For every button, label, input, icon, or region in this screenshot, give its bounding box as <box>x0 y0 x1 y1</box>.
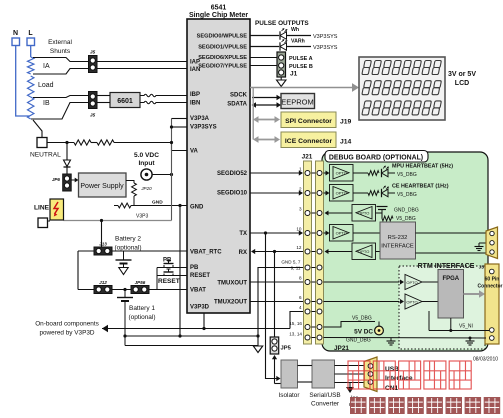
wire battery feed drop <box>101 221 103 252</box>
wire neutral blue loop <box>16 46 30 117</box>
wire V3P3SYS <box>170 125 187 128</box>
svg-text:SDCK: SDCK <box>230 93 248 99</box>
svg-text:SEGDIO52: SEGDIO52 <box>217 171 248 177</box>
svg-text:3V or 5V: 3V or 5V <box>448 71 476 78</box>
LED CE heartbeat <box>382 186 389 198</box>
wire IA tap top <box>33 58 88 62</box>
wire RS-232 to opto U9 <box>376 251 381 253</box>
svg-text:GND: GND <box>190 205 204 211</box>
RX branch to JP5 <box>273 250 276 337</box>
ICE Connector J14 <box>281 132 352 148</box>
svg-text:60 Pin: 60 Pin <box>485 277 500 283</box>
svg-text:2: 2 <box>299 187 302 192</box>
svg-text:SEGDIO7/YPULSE: SEGDIO7/YPULSE <box>198 64 247 70</box>
pushbutton RESET <box>164 269 174 276</box>
opto U7 <box>352 205 376 222</box>
svg-text:RESET: RESET <box>190 273 210 279</box>
svg-text:9, 11: 9, 11 <box>291 266 301 271</box>
V3P3D wire with left arrow <box>102 325 290 332</box>
earth ground debug right <box>466 337 475 346</box>
wire to diode <box>66 143 68 161</box>
DB9 connector J4 <box>486 227 498 259</box>
svg-text:Isolator: Isolator <box>279 392 301 399</box>
svg-text:powered by V3P3D: powered by V3P3D <box>39 330 94 337</box>
wire PS to GND resistor <box>126 181 134 184</box>
connector JP5 <box>270 337 291 354</box>
svg-text:VBAT: VBAT <box>190 288 206 294</box>
wire to V5_DBG <box>389 172 417 178</box>
wire J21 pin6 to RTM opto <box>324 299 405 304</box>
svg-text:OPTO: OPTO <box>358 249 369 254</box>
diode D1 <box>64 160 71 167</box>
opto U5 <box>330 165 354 182</box>
open arrow battery 2 gnd <box>119 268 128 275</box>
svg-text:V5_DBG: V5_DBG <box>396 216 416 222</box>
svg-text:6: 6 <box>299 295 302 300</box>
svg-text:15, 16: 15, 16 <box>289 321 302 326</box>
svg-text:12: 12 <box>296 245 302 250</box>
resistor R6 <box>97 140 114 145</box>
svg-text:L: L <box>28 30 33 37</box>
open arrow below J1 <box>277 77 287 87</box>
svg-text:USB: USB <box>385 366 399 373</box>
svg-text:External: External <box>48 39 72 46</box>
svg-text:J1: J1 <box>290 71 298 78</box>
svg-text:TMUX2OUT: TMUX2OUT <box>214 300 247 306</box>
V3P3D riser to JP21 pin 4 <box>290 312 304 329</box>
svg-text:SEGDIO0/WPULSE: SEGDIO0/WPULSE <box>197 34 248 40</box>
wire to V5_DBG <box>389 192 417 198</box>
junction neutral-diode <box>65 141 68 144</box>
svg-text:J12: J12 <box>99 280 107 285</box>
wire LED Wh to V3P3SYS <box>287 34 338 40</box>
opto U6 <box>330 185 354 202</box>
wire WPULSE <box>250 35 279 37</box>
ICE double arrow (gray) <box>253 136 280 143</box>
svg-text:08/03/2010: 08/03/2010 <box>473 357 498 363</box>
svg-text:J5: J5 <box>90 50 96 56</box>
wire SEGDIO10 to J21 pin2 <box>250 190 303 195</box>
svg-text:IA: IA <box>43 63 50 70</box>
wire opto to FPGA row 8 <box>422 281 438 283</box>
svg-text:JP6: JP6 <box>52 177 61 182</box>
EEPROM <box>281 94 315 109</box>
svg-text:V3P3D: V3P3D <box>190 305 210 311</box>
wire J5 to 6601 top <box>97 95 110 97</box>
svg-text:V3P3SYS: V3P3SYS <box>313 45 338 51</box>
label Battery 1 (optional) <box>128 305 155 321</box>
wire jack to V3P3A rail <box>152 173 173 176</box>
svg-text:1: 1 <box>299 167 302 172</box>
connector JP6 <box>52 174 71 191</box>
wire J21 pin2 to opto U6 <box>324 191 330 196</box>
junction VA divider <box>170 141 173 144</box>
svg-text:SDATA: SDATA <box>227 102 247 108</box>
svg-text:NEUTRAL: NEUTRAL <box>30 152 61 159</box>
svg-text:V3P3A: V3P3A <box>190 116 210 122</box>
svg-text:RESET: RESET <box>158 278 180 285</box>
FPGA <box>438 270 464 319</box>
wire YPULSE <box>250 65 278 67</box>
battery 1 symbol <box>117 290 133 302</box>
wire IBN with isolation squiggle <box>140 101 187 104</box>
wire IAN <box>97 68 187 70</box>
resistor R10 <box>353 171 379 176</box>
opto U7 output to J21 pin3 <box>325 211 353 216</box>
battery return wire <box>125 345 258 347</box>
wire V3P3A <box>172 118 188 120</box>
pushbutton PB <box>163 258 174 268</box>
svg-text:Serial/USB: Serial/USB <box>309 392 340 399</box>
svg-text:6541: 6541 <box>211 5 227 12</box>
terminal LINE <box>38 218 50 228</box>
gray arrow FPGA to 60 pin <box>464 290 486 297</box>
svg-text:CE HEARTBEAT (1Hz): CE HEARTBEAT (1Hz) <box>392 184 449 190</box>
svg-text:GND_DBG: GND_DBG <box>394 208 419 214</box>
wire SEGDIO52 to J21 pin1 <box>250 170 303 175</box>
wire TMUXOUT to J21 pin8 <box>250 281 303 283</box>
svg-text:V5_DBG: V5_DBG <box>352 316 372 322</box>
svg-text:OPTO: OPTO <box>358 210 369 215</box>
resistor to V5_DBG <box>382 213 416 222</box>
LED Wh <box>280 27 299 40</box>
svg-text:Single Chip Meter: Single Chip Meter <box>189 12 248 19</box>
svg-text:GND_DBG: GND_DBG <box>346 338 371 344</box>
svg-text:Input: Input <box>138 160 155 167</box>
TX branch to isolator <box>264 231 281 381</box>
connector JP56 <box>131 280 149 294</box>
svg-text:LCD: LCD <box>455 80 469 87</box>
label 60 Pin Connector <box>478 277 503 290</box>
debug board (optional) <box>322 152 488 351</box>
battery 2 symbol <box>116 251 132 268</box>
isolator U3 <box>279 360 301 399</box>
left battery rail <box>77 251 79 290</box>
wire IB tap top <box>33 96 88 98</box>
wire to LCD (gray) <box>250 83 359 92</box>
svg-text:TMUXOUT: TMUXOUT <box>217 281 247 287</box>
60 pin connector <box>485 264 499 344</box>
wire IAP <box>97 61 187 63</box>
wire diode to JP6 <box>66 167 68 174</box>
wire J21 pin10 to opto U8 <box>324 231 330 236</box>
svg-text:RX: RX <box>239 250 247 256</box>
svg-text:LINE: LINE <box>34 205 50 212</box>
junction battery gnd <box>123 334 126 337</box>
svg-text:J19: J19 <box>340 119 352 126</box>
LED MPU heartbeat <box>382 166 389 178</box>
svg-text:DEBUG BOARD (OPTIONAL): DEBUG BOARD (OPTIONAL) <box>329 155 423 162</box>
svg-text:PULSE B: PULSE B <box>289 64 313 70</box>
svg-text:GND: GND <box>152 200 163 206</box>
junction battery rail top <box>100 249 103 252</box>
connector J21 strip B <box>316 161 324 344</box>
svg-text:JP20: JP20 <box>140 186 152 191</box>
svg-text:IB: IB <box>43 100 50 107</box>
svg-text:J5: J5 <box>90 113 96 119</box>
wire J21 pin1 to opto U5 <box>324 171 330 176</box>
earth ground debug left <box>387 338 396 345</box>
isolated sensor 6601 <box>110 93 140 108</box>
power supply PS1 <box>79 173 127 197</box>
svg-text:V5_NI: V5_NI <box>459 324 473 330</box>
wire IA tap bottom <box>33 69 88 75</box>
svg-text:N: N <box>13 30 18 37</box>
arrow JP6 to power supply <box>71 178 78 183</box>
wire VBAT row <box>78 289 187 291</box>
svg-text:VA: VA <box>190 149 199 155</box>
svg-text:J14: J14 <box>340 139 352 146</box>
svg-text:OPTO: OPTO <box>406 280 417 285</box>
capacitor to GND_DBG <box>376 207 419 214</box>
pushbutton common rail <box>156 268 158 290</box>
svg-text:INTERFACE: INTERFACE <box>381 244 414 250</box>
svg-text:MPU HEARTBEAT (5Hz): MPU HEARTBEAT (5Hz) <box>392 164 453 170</box>
terminal L <box>27 30 35 46</box>
earth ground DB9 <box>475 243 487 251</box>
svg-text:V3P3SYS: V3P3SYS <box>313 34 338 40</box>
debug board title <box>325 151 428 163</box>
wires isolator to converter <box>298 366 313 383</box>
svg-text:Converter: Converter <box>311 401 340 408</box>
resistor on GND wire <box>114 205 118 207</box>
svg-text:VBAT_RTC: VBAT_RTC <box>190 250 222 256</box>
svg-text:13, 14: 13, 14 <box>289 332 302 337</box>
terminal N <box>12 30 20 46</box>
svg-text:OPTO: OPTO <box>336 170 347 175</box>
svg-text:RS-232: RS-232 <box>388 235 408 241</box>
wire opto U8 to RS-232 <box>353 232 380 234</box>
svg-text:8: 8 <box>299 276 302 281</box>
wire FPGA V5_NI <box>429 311 489 332</box>
svg-text:IBP: IBP <box>190 92 200 98</box>
wire GND drop to battery GND rail <box>179 206 181 337</box>
wire RS-232 to DB9 bottom <box>416 252 487 254</box>
svg-text:V3P3: V3P3 <box>136 214 148 220</box>
RTM interface sub-board <box>399 266 485 349</box>
wire RS-232 to DB9 top <box>416 232 487 234</box>
wire GND to chip <box>131 200 187 208</box>
svg-text:V3P3SYS: V3P3SYS <box>190 125 217 131</box>
LED VARh <box>280 39 305 51</box>
watermark small text (dark red) <box>350 397 500 414</box>
svg-text:FPGA: FPGA <box>442 276 459 282</box>
labels USB Interface CN1 <box>385 366 413 392</box>
wire XPULSE <box>250 57 278 59</box>
svg-text:JP21: JP21 <box>334 345 349 352</box>
resistor R11 <box>353 191 379 196</box>
connector J5 (IA) <box>89 50 98 73</box>
opto U8 <box>330 225 354 242</box>
wire TMUX2OUT to J21 pin6 <box>250 301 303 303</box>
RTM opto U11 <box>405 294 422 309</box>
wire line blue <box>30 46 32 58</box>
wire J5 to 6601 bottom <box>97 102 110 104</box>
wire RESET row <box>157 275 187 277</box>
svg-text:OPTO: OPTO <box>406 300 417 305</box>
serial/USB converter U4 <box>309 360 340 408</box>
junction V3P3 to battery feed <box>100 219 103 222</box>
svg-text:SEGDIO6/XPULSE: SEGDIO6/XPULSE <box>198 55 247 61</box>
wire shunt to neutral terminal <box>33 120 42 138</box>
svg-text:SEGDIO1/VPULSE: SEGDIO1/VPULSE <box>198 45 247 51</box>
label 3V or 5V LCD <box>448 71 476 87</box>
wire IB tap bottom <box>31 103 88 120</box>
V3P3 wire (gray) <box>64 214 172 221</box>
5.0 VDC input label <box>134 152 159 167</box>
wire TX to J21 pin10 <box>250 230 303 235</box>
barrel jack JP20 <box>140 169 152 191</box>
wire opto to FPGA row 6 <box>422 301 438 303</box>
wires converter to CN1 <box>335 366 365 383</box>
svg-text:V5_DBG: V5_DBG <box>397 192 417 198</box>
svg-text:Battery 2: Battery 2 <box>115 236 141 243</box>
svg-text:SPI Connector: SPI Connector <box>285 118 332 125</box>
battery 1 down wire <box>124 301 126 346</box>
svg-text:Connector: Connector <box>478 284 503 290</box>
SPI double arrow (gray) <box>253 116 280 123</box>
wire LED VARh to V3P3SYS <box>287 45 338 51</box>
connector J13 <box>94 242 112 256</box>
USB connector CN1 <box>364 357 377 392</box>
label External Shunts <box>48 39 72 55</box>
svg-text:EEPROM: EEPROM <box>281 98 314 107</box>
svg-text:J21: J21 <box>302 154 313 161</box>
shunt resistor Load <box>28 76 34 97</box>
svg-text:TX: TX <box>239 231 247 237</box>
opto U9 <box>352 243 376 260</box>
single chip meter U1 6541 <box>187 5 250 314</box>
wire IBP with isolation squiggle <box>140 94 187 97</box>
svg-text:3: 3 <box>299 207 302 212</box>
J21 pin circles <box>305 171 322 341</box>
svg-text:V5_DBG: V5_DBG <box>397 172 417 178</box>
svg-text:PULSE A: PULSE A <box>289 56 313 62</box>
shunt resistor IA <box>28 57 34 74</box>
SPI Connector J19 <box>281 112 352 128</box>
watermark big text (red outline) <box>348 361 471 389</box>
svg-text:Power Supply: Power Supply <box>80 183 124 190</box>
svg-text:RTM INTERFACE: RTM INTERFACE <box>418 263 475 270</box>
wire RX from J21 pin12 <box>251 249 303 254</box>
RTM opto U10 <box>405 275 422 290</box>
svg-text:Battery 1: Battery 1 <box>129 305 155 312</box>
svg-text:(optional): (optional) <box>128 314 155 321</box>
svg-text:OPTO: OPTO <box>336 190 347 195</box>
5V DC source <box>354 322 383 336</box>
arrow into JP5 from isolator <box>272 355 281 384</box>
svg-text:Shunts: Shunts <box>50 48 71 55</box>
iso-gnd arrow <box>346 383 361 409</box>
V5_DBG feed <box>324 316 376 328</box>
svg-text:GND 5, 7: GND 5, 7 <box>281 260 301 265</box>
RS-232 interface <box>380 222 416 259</box>
svg-text:ICE Connector: ICE Connector <box>285 138 333 145</box>
svg-text:J5: J5 <box>479 265 485 271</box>
svg-text:5.0 VDC: 5.0 VDC <box>134 152 159 159</box>
svg-text:6601: 6601 <box>117 98 133 105</box>
resistor R5 <box>74 140 91 145</box>
wire J21 pin8 to RTM opto <box>324 280 405 285</box>
wire V3P3SYS rail (gray) <box>252 88 254 140</box>
connector J12 <box>94 280 112 294</box>
svg-text:4: 4 <box>299 305 302 310</box>
svg-text:On-board components: On-board components <box>35 321 99 328</box>
wire VA with divider resistors <box>47 142 74 144</box>
GND rail wire <box>125 334 260 337</box>
wire PB row <box>157 267 187 269</box>
shunt resistor IB <box>28 97 34 119</box>
wire VBAT_RTC row <box>78 250 187 252</box>
wire SDCK to EEPROM <box>252 95 281 101</box>
label Battery 2 (optional) <box>114 236 141 252</box>
opto U9 output to J21 pin12 <box>325 249 353 254</box>
open arrow GND termination <box>253 346 262 353</box>
V3P3A rail <box>171 119 173 221</box>
GND_DBG wire <box>324 338 487 344</box>
surge box with lightning <box>50 199 64 220</box>
svg-text:Wh: Wh <box>291 27 299 33</box>
svg-text:PULSE OUTPUTS: PULSE OUTPUTS <box>255 20 309 27</box>
junction battery 1 <box>123 288 126 291</box>
svg-text:JP5: JP5 <box>281 346 292 352</box>
svg-text:OPTO: OPTO <box>336 230 347 235</box>
J21 pin numbers <box>281 167 302 337</box>
svg-text:SEGDIO10: SEGDIO10 <box>217 191 248 197</box>
svg-text:JP56: JP56 <box>135 280 146 285</box>
svg-text:IBN: IBN <box>190 101 200 107</box>
svg-text:5V DC: 5V DC <box>354 329 373 336</box>
connector J21 strip A <box>304 161 312 344</box>
svg-text:PB: PB <box>190 265 199 271</box>
svg-text:VARh: VARh <box>291 39 305 45</box>
wire SDATA bidirectional <box>252 102 282 108</box>
label on-board components powered by V3P3D <box>35 321 99 337</box>
svg-text:J13: J13 <box>99 242 107 247</box>
svg-text:Load: Load <box>38 82 54 89</box>
connector J5 (IB) <box>89 92 98 119</box>
V3P3D drop from chip <box>202 313 205 330</box>
wire VPULSE <box>250 46 279 48</box>
connector J1 <box>277 52 286 77</box>
terminal NEUTRAL <box>30 138 61 159</box>
LCD display <box>359 57 445 120</box>
GND corner from JP21 <box>258 268 303 347</box>
resistor to GND (vertical) <box>132 183 137 196</box>
